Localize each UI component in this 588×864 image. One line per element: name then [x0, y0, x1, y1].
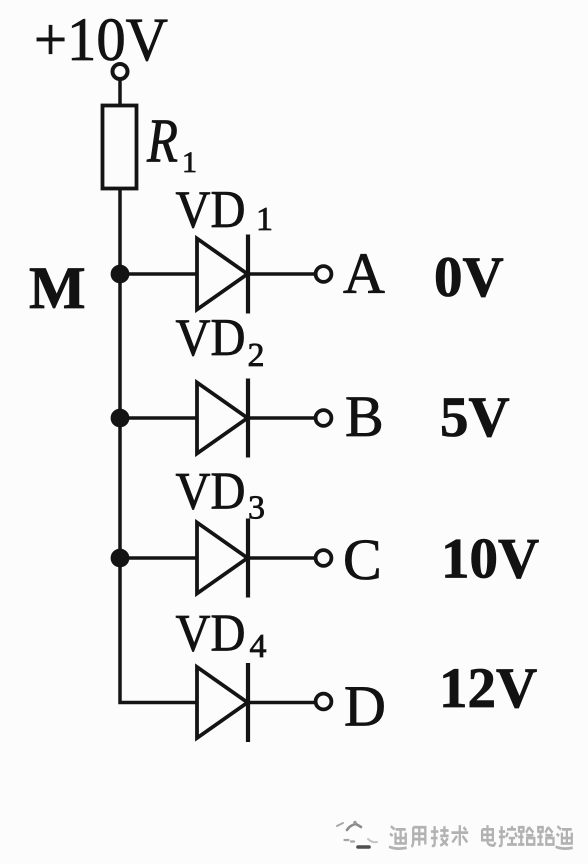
svg-text:M: M: [29, 255, 86, 321]
svg-text:B: B: [345, 384, 384, 449]
svg-text:5V: 5V: [440, 386, 510, 449]
svg-text:0V: 0V: [434, 246, 504, 309]
svg-text:1: 1: [182, 146, 197, 179]
svg-text:3: 3: [248, 490, 265, 527]
svg-text:VD: VD: [176, 605, 246, 663]
svg-text:VD: VD: [176, 463, 246, 521]
svg-text:1: 1: [256, 201, 273, 238]
svg-text:4: 4: [250, 628, 267, 665]
svg-text:10V: 10V: [441, 528, 539, 591]
svg-text:C: C: [343, 527, 382, 592]
svg-text:R: R: [146, 108, 178, 176]
svg-text:VD: VD: [176, 181, 246, 239]
svg-text:D: D: [344, 674, 386, 739]
svg-text:VD: VD: [176, 309, 246, 367]
svg-text:2: 2: [248, 337, 265, 374]
svg-text:+10V: +10V: [34, 7, 168, 74]
svg-text:A: A: [343, 241, 385, 306]
svg-text:12V: 12V: [439, 657, 537, 720]
